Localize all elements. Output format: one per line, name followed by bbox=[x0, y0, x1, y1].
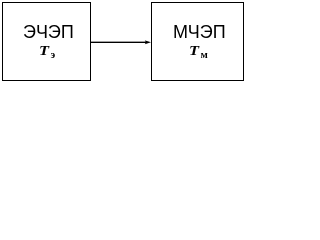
label Тм bbox=[189, 45, 208, 62]
wire arrow from ЭЧЭП to МЧЭП bbox=[0, 0, 246, 85]
label Тэ bbox=[39, 45, 55, 62]
block ЭЧЭП box bbox=[2, 2, 91, 81]
label ЭЧЭП bbox=[23, 23, 74, 41]
label МЧЭП bbox=[173, 23, 226, 41]
block МЧЭП box bbox=[151, 2, 245, 82]
